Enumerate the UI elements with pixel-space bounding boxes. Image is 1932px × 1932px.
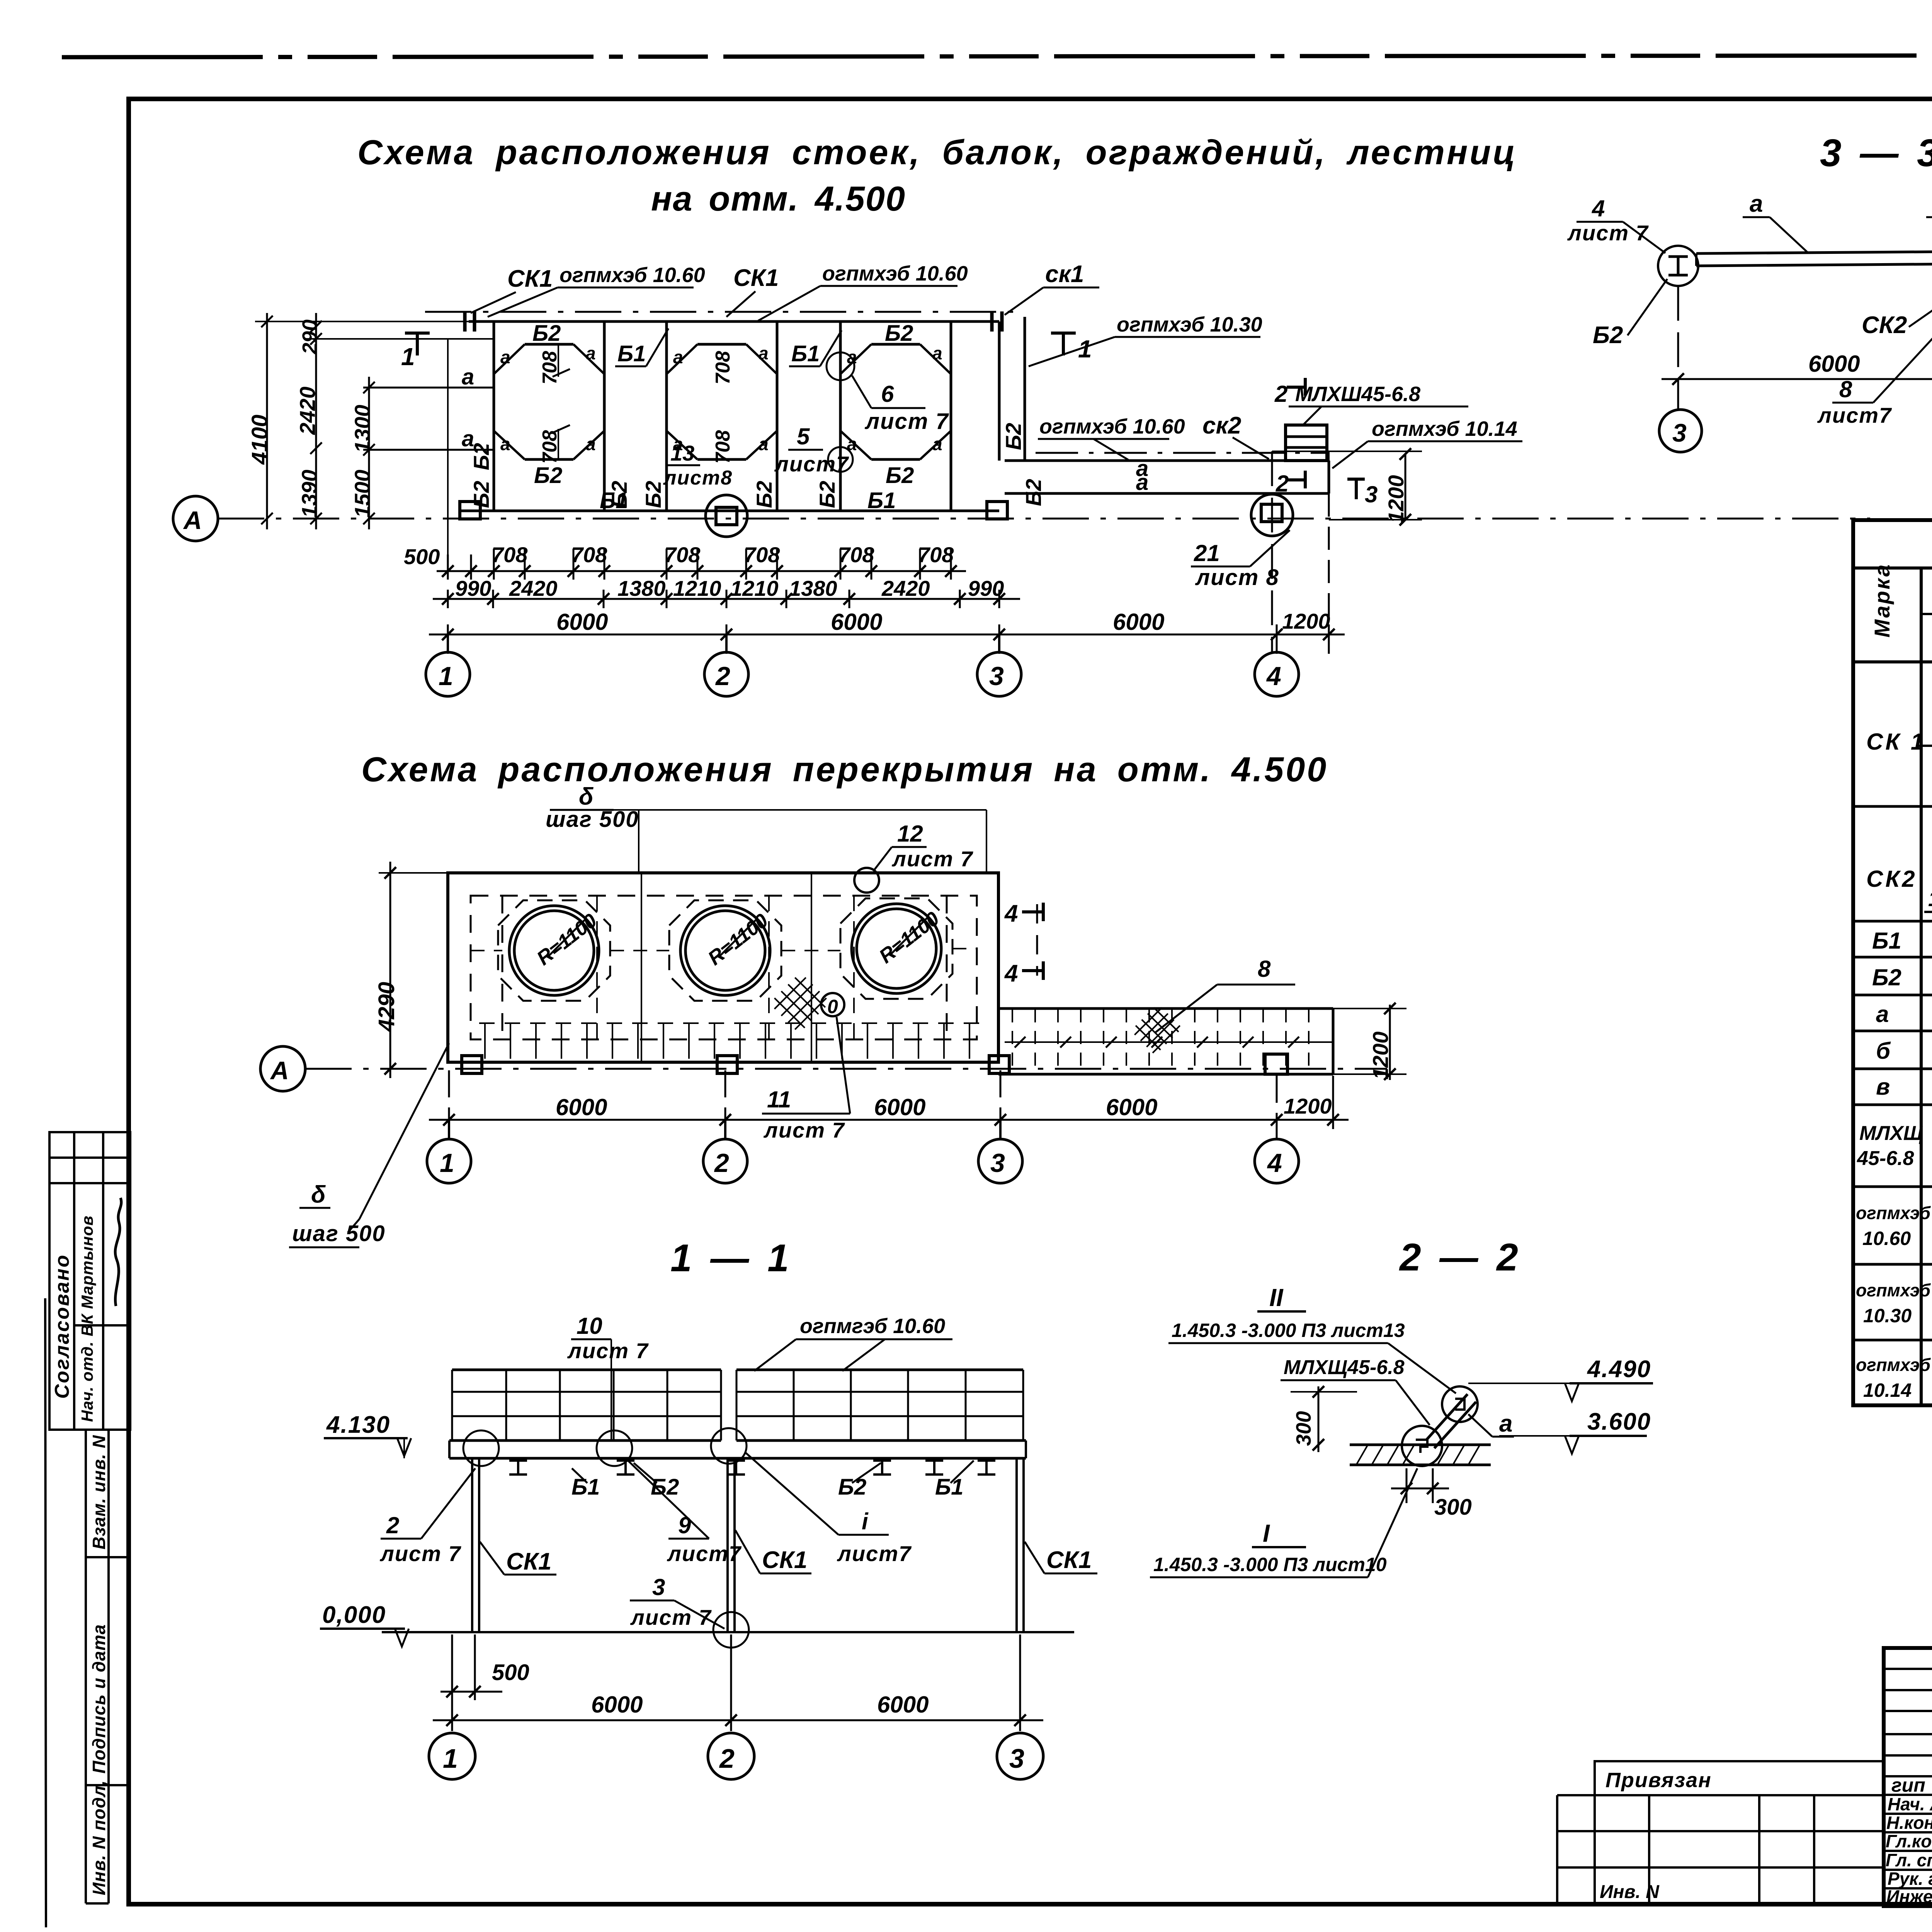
svg-text:а: а	[759, 343, 769, 363]
svg-text:4.490: 4.490	[1587, 1356, 1651, 1383]
svg-text:Б2: Б2	[641, 481, 665, 508]
svg-text:2: 2	[714, 1148, 729, 1178]
svg-text:6000: 6000	[831, 609, 882, 635]
svg-text:708: 708	[492, 543, 528, 567]
svg-text:Б2: Б2	[838, 1475, 866, 1500]
svg-text:огпмхэб: огпмхэб	[1856, 1355, 1931, 1375]
svg-text:10: 10	[577, 1313, 602, 1339]
svg-text:а: а	[1499, 1410, 1512, 1437]
svg-text:А: А	[270, 1056, 289, 1085]
svg-text:Б2: Б2	[532, 321, 561, 346]
svg-text:708: 708	[744, 543, 780, 567]
svg-text:4.130: 4.130	[326, 1412, 390, 1438]
svg-text:СК1: СК1	[507, 265, 553, 292]
svg-text:а: а	[500, 347, 510, 367]
svg-text:10.14: 10.14	[1863, 1379, 1912, 1401]
svg-text:Б1: Б1	[867, 488, 896, 513]
svg-text:Нач. АСО: Нач. АСО	[1888, 1794, 1932, 1814]
svg-text:13: 13	[670, 441, 694, 465]
svg-text:огпмхэб: огпмхэб	[1856, 1280, 1931, 1300]
svg-text:990: 990	[968, 576, 1004, 600]
svg-text:Б2: Б2	[815, 481, 839, 508]
svg-text:1: 1	[1078, 335, 1092, 363]
svg-text:290: 290	[298, 320, 321, 355]
svg-text:4: 4	[1592, 196, 1605, 221]
svg-text:δ: δ	[579, 783, 594, 810]
svg-text:огпмхэб 10.60: огпмхэб 10.60	[560, 264, 705, 287]
svg-text:Б1: Б1	[1872, 928, 1901, 954]
svg-text:лист 7: лист 7	[567, 1338, 649, 1363]
svg-text:2: 2	[1274, 381, 1287, 407]
svg-text:огпмхэб 10.14: огпмхэб 10.14	[1372, 417, 1517, 440]
svg-text:Схема расположения перекры: Схема расположения перекрытия на отм. 4.…	[361, 750, 1328, 789]
svg-text:0: 0	[827, 996, 838, 1017]
svg-text:1200: 1200	[1368, 1031, 1393, 1080]
svg-text:2: 2	[1276, 471, 1289, 497]
svg-text:1200: 1200	[1284, 1094, 1332, 1118]
svg-text:2420: 2420	[881, 576, 930, 600]
svg-text:12: 12	[897, 821, 923, 847]
svg-text:лист7: лист7	[667, 1541, 742, 1566]
svg-text:а: а	[462, 426, 474, 451]
svg-text:Н.контр.: Н.контр.	[1886, 1813, 1932, 1833]
svg-text:1: 1	[1928, 886, 1932, 911]
svg-text:1300: 1300	[350, 405, 374, 453]
svg-text:Б2: Б2	[607, 481, 631, 508]
svg-text:МЛХШ45-6.8: МЛХШ45-6.8	[1295, 383, 1420, 406]
svg-text:огпмхэб 10.60: огпмхэб 10.60	[1039, 415, 1185, 438]
svg-text:Инжен.: Инжен.	[1886, 1886, 1932, 1906]
svg-text:а: а	[586, 434, 596, 454]
svg-text:500: 500	[492, 1660, 529, 1685]
svg-text:Нач. отд. ВК Мартынов: Нач. отд. ВК Мартынов	[78, 1215, 96, 1422]
svg-text:Б2: Б2	[1001, 423, 1026, 450]
svg-text:СК2: СК2	[1866, 866, 1917, 892]
svg-text:лист7: лист7	[1817, 403, 1892, 427]
svg-text:1.450.3 -3.000 П3 лист13: 1.450.3 -3.000 П3 лист13	[1172, 1320, 1405, 1341]
svg-text:Б2: Б2	[886, 463, 914, 488]
svg-text:708: 708	[918, 543, 954, 567]
svg-text:огпмхэб 10.60: огпмхэб 10.60	[822, 262, 968, 285]
svg-text:Б2: Б2	[469, 481, 493, 508]
svg-text:Б2: Б2	[752, 481, 776, 508]
svg-text:i: i	[862, 1509, 869, 1534]
svg-text:СК1: СК1	[1046, 1547, 1092, 1573]
svg-text:лист 7: лист 7	[763, 1118, 845, 1142]
svg-text:708: 708	[664, 543, 701, 567]
svg-text:6000: 6000	[556, 1094, 607, 1120]
svg-text:СК2: СК2	[1862, 312, 1907, 338]
svg-text:I: I	[1263, 1519, 1270, 1547]
svg-text:708: 708	[571, 543, 607, 567]
svg-text:11: 11	[767, 1087, 791, 1112]
svg-text:СК 1: СК 1	[1866, 729, 1926, 755]
svg-text:2: 2	[386, 1512, 399, 1538]
svg-text:0,000: 0,000	[322, 1602, 386, 1628]
svg-text:1200: 1200	[1282, 609, 1330, 633]
svg-text:лист8: лист8	[663, 467, 733, 489]
svg-text:а: а	[1876, 1001, 1889, 1027]
svg-text:δ: δ	[311, 1181, 326, 1208]
svg-text:Б2: Б2	[1872, 964, 1901, 990]
svg-text:2: 2	[715, 662, 730, 691]
svg-text:СК1: СК1	[762, 1547, 807, 1573]
svg-text:4: 4	[1266, 662, 1281, 691]
svg-text:1210: 1210	[730, 576, 779, 600]
svg-text:Б1: Б1	[935, 1475, 963, 1500]
svg-text:6000: 6000	[1113, 609, 1164, 635]
svg-text:500: 500	[404, 544, 440, 569]
svg-text:6000: 6000	[1106, 1094, 1157, 1120]
svg-text:3: 3	[1672, 418, 1687, 447]
svg-text:6000: 6000	[874, 1094, 925, 1120]
svg-text:3: 3	[1009, 1743, 1024, 1774]
svg-text:б: б	[1876, 1038, 1891, 1064]
svg-text:2 — 2: 2 — 2	[1399, 1236, 1522, 1279]
svg-text:4: 4	[1267, 1148, 1282, 1178]
svg-text:45-6.8: 45-6.8	[1857, 1147, 1914, 1170]
svg-text:огпмхэб 10.30: огпмхэб 10.30	[1117, 313, 1262, 336]
svg-text:10.30: 10.30	[1863, 1305, 1912, 1327]
svg-text:а: а	[673, 347, 683, 367]
svg-text:в: в	[1876, 1074, 1890, 1100]
svg-text:МЛХЩ45-6.8: МЛХЩ45-6.8	[1284, 1356, 1405, 1379]
svg-text:Инв. N подл,: Инв. N подл,	[89, 1780, 109, 1895]
svg-text:1 — 1: 1 — 1	[670, 1236, 793, 1280]
svg-text:708: 708	[712, 351, 734, 384]
svg-text:4290: 4290	[374, 982, 399, 1032]
svg-text:Б2: Б2	[1593, 322, 1623, 349]
svg-text:Привязан: Привязан	[1605, 1769, 1712, 1792]
svg-text:а: а	[500, 434, 510, 454]
svg-text:6000: 6000	[877, 1692, 929, 1718]
svg-text:а: а	[586, 343, 596, 363]
svg-text:1: 1	[439, 662, 453, 691]
svg-text:3: 3	[1365, 481, 1378, 507]
svg-text:8: 8	[1258, 956, 1271, 982]
svg-text:лист 8: лист 8	[1195, 565, 1279, 590]
svg-text:3 — 3: 3 — 3	[1820, 131, 1932, 175]
svg-text:Гл.конст.: Гл.конст.	[1886, 1831, 1932, 1851]
svg-text:Марка: Марка	[1870, 563, 1894, 638]
svg-text:1380: 1380	[617, 576, 666, 600]
svg-text:2420: 2420	[509, 576, 558, 600]
svg-text:4: 4	[1004, 960, 1018, 987]
svg-text:10.60: 10.60	[1862, 1228, 1911, 1249]
svg-text:а: а	[1136, 470, 1148, 495]
svg-text:300: 300	[1292, 1411, 1315, 1446]
svg-text:а: а	[932, 343, 942, 363]
svg-text:огпмхэб: огпмхэб	[1856, 1203, 1931, 1223]
svg-text:1380: 1380	[789, 576, 837, 600]
svg-text:Схема расположения стоек, б: Схема расположения стоек, балок, огражде…	[357, 133, 1517, 172]
svg-text:а: а	[1750, 190, 1763, 217]
svg-text:2420: 2420	[295, 386, 320, 435]
svg-text:21: 21	[1194, 540, 1220, 566]
svg-text:ск1: ск1	[1045, 261, 1084, 287]
svg-text:708: 708	[838, 543, 874, 567]
svg-text:гип: гип	[1891, 1774, 1925, 1796]
svg-text:4: 4	[1004, 900, 1018, 927]
svg-text:1: 1	[443, 1743, 458, 1774]
svg-text:а: а	[932, 434, 942, 454]
svg-text:1: 1	[440, 1148, 454, 1178]
svg-text:Б2: Б2	[534, 463, 562, 488]
svg-text:6000: 6000	[556, 609, 608, 635]
svg-text:а: а	[462, 364, 474, 389]
svg-text:3.600: 3.600	[1587, 1408, 1651, 1435]
svg-text:4100: 4100	[247, 415, 272, 465]
svg-text:1390: 1390	[297, 469, 321, 518]
svg-text:5: 5	[797, 423, 810, 449]
svg-text:2: 2	[719, 1743, 735, 1774]
svg-text:1210: 1210	[673, 576, 721, 600]
svg-text:А: А	[183, 506, 202, 534]
svg-text:лист 7: лист 7	[891, 847, 974, 871]
svg-text:лист7: лист7	[837, 1541, 912, 1566]
svg-text:Б1: Б1	[617, 341, 646, 366]
svg-text:8: 8	[1839, 376, 1852, 402]
svg-text:Б2: Б2	[885, 321, 913, 346]
svg-text:6000: 6000	[1808, 351, 1860, 377]
svg-text:Б1: Б1	[791, 341, 820, 366]
svg-text:Рук. гр.: Рук. гр.	[1888, 1869, 1932, 1889]
svg-text:Б1: Б1	[571, 1475, 600, 1500]
svg-text:СК1: СК1	[506, 1548, 551, 1575]
svg-text:СК1: СК1	[733, 265, 779, 291]
svg-text:ск2: ск2	[1202, 412, 1241, 439]
svg-text:990: 990	[455, 576, 491, 600]
svg-text:300: 300	[1434, 1495, 1472, 1520]
svg-text:Подпись и дата: Подпись и дата	[89, 1624, 109, 1774]
svg-text:3: 3	[990, 1148, 1005, 1178]
svg-text:лист 7: лист 7	[864, 409, 949, 434]
svg-text:Взам. инв. N: Взам. инв. N	[89, 1435, 109, 1549]
svg-text:6000: 6000	[591, 1692, 643, 1718]
svg-text:лист 7: лист 7	[630, 1605, 712, 1629]
svg-text:лист7: лист7	[774, 452, 849, 476]
svg-text:Гл. спец.: Гл. спец.	[1886, 1850, 1932, 1870]
svg-text:1500: 1500	[350, 469, 374, 518]
svg-text:3: 3	[989, 662, 1004, 691]
svg-text:Инв. N: Инв. N	[1600, 1882, 1660, 1902]
svg-text:лист 7: лист 7	[379, 1541, 462, 1566]
svg-text:огпмгэб 10.60: огпмгэб 10.60	[800, 1315, 945, 1338]
svg-text:на отм. 4.500: на отм. 4.500	[651, 180, 906, 218]
svg-text:Б2: Б2	[1021, 479, 1046, 506]
svg-text:МЛХЩ: МЛХЩ	[1859, 1122, 1923, 1145]
svg-text:3: 3	[652, 1574, 665, 1600]
svg-text:II: II	[1269, 1284, 1284, 1311]
svg-text:а: а	[759, 434, 769, 454]
svg-text:Согласовано: Согласовано	[51, 1254, 73, 1399]
svg-text:1: 1	[401, 343, 415, 371]
svg-text:6: 6	[881, 381, 894, 407]
svg-text:1.450.3 -3.000 П3 лист10: 1.450.3 -3.000 П3 лист10	[1153, 1554, 1387, 1575]
svg-text:708: 708	[712, 430, 734, 464]
svg-text:шаг 500: шаг 500	[292, 1221, 386, 1246]
